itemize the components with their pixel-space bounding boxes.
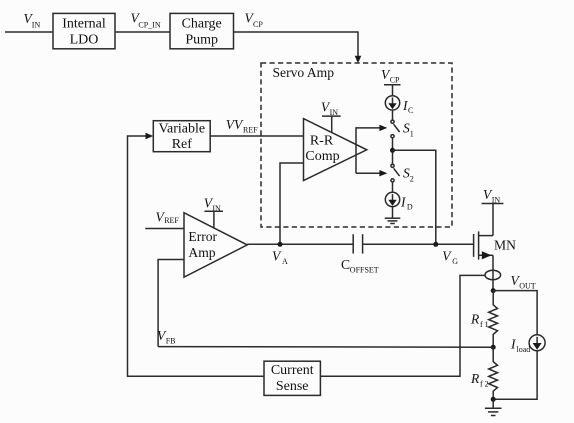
node VOUT — [491, 273, 536, 293]
svg-text:1: 1 — [410, 130, 414, 139]
svg-text:Internal: Internal — [62, 17, 106, 32]
wire error amp lower input from VFB — [158, 260, 184, 347]
svg-text:CP: CP — [390, 75, 400, 84]
wire junction to VG column — [393, 150, 436, 244]
svg-text:C: C — [408, 106, 413, 115]
svg-text:IN: IN — [32, 20, 41, 29]
svg-text:LDO: LDO — [70, 33, 99, 48]
ground (servo) — [385, 218, 401, 223]
svg-text:A: A — [282, 257, 288, 266]
svg-text:Comp: Comp — [305, 149, 339, 164]
wire comp lower input from VA — [280, 163, 304, 244]
svg-text:f 2: f 2 — [480, 380, 489, 389]
current source IC — [385, 96, 413, 115]
svg-text:Variable: Variable — [158, 122, 205, 137]
wire comp output bracket — [356, 128, 380, 173]
wire ID to ground — [392, 207, 394, 218]
wire S2 to ID — [392, 182, 394, 192]
op-amp Error Amp — [184, 213, 247, 278]
label VCP_IN — [131, 11, 161, 30]
wire sense tap to Current Sense — [320, 275, 485, 376]
supply VIN for error amp — [204, 196, 223, 229]
label VREF + input stub — [145, 210, 184, 229]
wire cap to VG and MN gate — [363, 243, 474, 245]
svg-text:OFFSET: OFFSET — [350, 265, 379, 274]
svg-text:Ref: Ref — [172, 137, 193, 152]
svg-text:C: C — [341, 257, 350, 272]
svg-text:f 1: f 1 — [480, 320, 489, 329]
svg-text:G: G — [452, 257, 458, 266]
svg-text:Pump: Pump — [185, 33, 218, 48]
switch S2 — [391, 164, 414, 183]
sense ellipse — [485, 270, 501, 279]
arrow to S1 — [379, 125, 387, 131]
resistor Rf1 — [470, 291, 498, 348]
svg-text:Charge: Charge — [182, 17, 222, 32]
wire LDO to Charge Pump — [115, 31, 170, 33]
block Current Sense — [264, 361, 320, 395]
servo amp dashed box — [261, 63, 452, 227]
svg-text:FB: FB — [166, 336, 176, 345]
wire Charge Pump to Servo Amp — [233, 32, 358, 57]
node switch common junction — [390, 148, 395, 153]
svg-text:load: load — [517, 345, 531, 354]
current source Iload — [510, 335, 545, 354]
svg-text:MN: MN — [494, 238, 516, 253]
label VIN (input) — [24, 11, 41, 29]
wire Iload to bottom node — [493, 351, 537, 400]
supply VIN for MN — [482, 187, 504, 236]
wire IC to S1 — [392, 110, 394, 120]
wire VOUT to Iload — [493, 291, 537, 335]
wire Current Sense to Variable Ref — [128, 136, 265, 376]
block Charge Pump — [170, 13, 234, 48]
svg-text:2: 2 — [410, 175, 414, 184]
svg-text:R: R — [470, 312, 480, 327]
capacitor COFFSET — [341, 234, 379, 274]
wire VFB — [157, 328, 493, 347]
svg-text:Sense: Sense — [276, 379, 309, 394]
svg-text:CP_IN: CP_IN — [138, 21, 160, 30]
op-amp R-R Comp — [304, 119, 367, 181]
resistor Rf2 — [470, 347, 498, 399]
svg-text:Amp: Amp — [188, 245, 215, 260]
supply VIN for comp — [321, 100, 341, 133]
wire error amp output to cap — [247, 243, 353, 245]
arrow to S2 — [379, 170, 387, 176]
svg-text:Current: Current — [271, 363, 314, 378]
node output bottom — [491, 397, 496, 402]
label VCP — [245, 10, 264, 29]
arrowhead into servo box — [355, 56, 362, 63]
svg-text:REF: REF — [164, 216, 179, 225]
svg-text:CP: CP — [253, 20, 263, 29]
svg-text:D: D — [407, 203, 413, 212]
switch S1 — [391, 120, 414, 139]
node VG — [433, 242, 458, 266]
supply rail VCP for IC — [381, 67, 401, 96]
wire VIN input — [5, 31, 53, 33]
svg-text:OUT: OUT — [519, 281, 536, 290]
wire MN source to sense ellipse — [492, 255, 494, 290]
svg-text:Error: Error — [188, 229, 217, 244]
block Variable Ref — [153, 121, 210, 152]
svg-text:Servo Amp: Servo Amp — [273, 65, 335, 80]
label VVREF — [226, 117, 259, 134]
ground (output) — [485, 399, 502, 415]
arrowhead into Variable Ref — [146, 133, 154, 139]
wire VVREF — [210, 135, 304, 137]
svg-text:REF: REF — [243, 125, 258, 134]
svg-text:R: R — [470, 371, 480, 386]
svg-text:R-R: R-R — [310, 134, 334, 149]
wire output to S2 arrow — [356, 172, 380, 174]
transistor MN — [474, 231, 516, 259]
node VFB junction — [491, 345, 496, 350]
block Internal LDO — [53, 13, 115, 48]
wire S1 to S2 — [392, 138, 394, 164]
current source ID — [385, 192, 413, 211]
node VA — [272, 242, 288, 266]
